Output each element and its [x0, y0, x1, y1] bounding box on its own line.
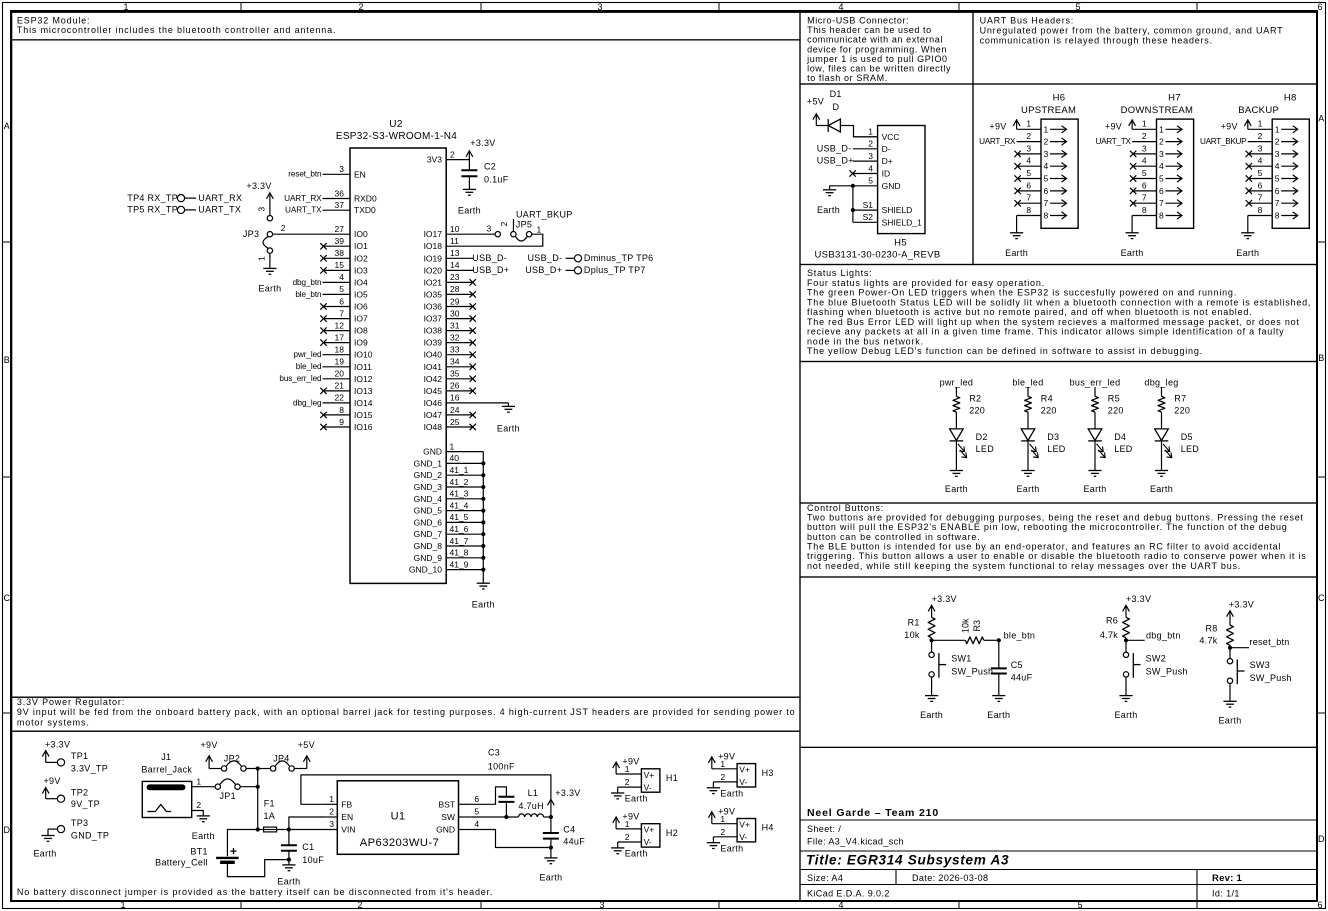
- pin 31 IO38: [424, 320, 474, 335]
- svg-text:J1: J1: [161, 752, 171, 762]
- svg-text:33: 33: [450, 345, 460, 355]
- resistor R1: [904, 617, 935, 640]
- no-connect pin 7 of H6: [1014, 200, 1020, 206]
- power +9V at H2: [613, 812, 640, 829]
- wire: [955, 412, 957, 429]
- arrow pin 4 of H6: [1050, 163, 1067, 170]
- pin 2 of H8: [1248, 131, 1280, 147]
- svg-text:H4: H4: [762, 823, 774, 833]
- svg-text:+9V: +9V: [201, 740, 218, 750]
- svg-text:GND_2: GND_2: [414, 470, 443, 480]
- power +3.3V at R6: [1123, 594, 1152, 617]
- svg-text:36: 36: [335, 188, 345, 198]
- pin 19 IO11: [323, 357, 373, 372]
- svg-text:reset_btn: reset_btn: [288, 170, 322, 179]
- svg-text:+9V: +9V: [1105, 122, 1122, 132]
- svg-text:19: 19: [335, 357, 345, 367]
- svg-text:node in the bus network.: node in the bus network.: [807, 336, 924, 346]
- pin 1 of H7: [1132, 119, 1164, 135]
- junction: [481, 461, 485, 465]
- svg-text:5: 5: [1275, 174, 1280, 184]
- pin 21 IO13: [323, 381, 373, 396]
- ground: [263, 268, 276, 274]
- svg-text:Four status lights are provide: Four status lights are provided for easy…: [807, 278, 1045, 288]
- svg-text:GND_7: GND_7: [414, 529, 443, 539]
- svg-text:GND_4: GND_4: [414, 494, 443, 504]
- pin 37 TXD0: [323, 200, 377, 215]
- svg-text:8: 8: [339, 405, 344, 415]
- svg-text:dbg_leg: dbg_leg: [1144, 377, 1178, 387]
- power +3.3V at R1: [928, 594, 957, 617]
- svg-text:SHIELD_1: SHIELD_1: [882, 217, 922, 227]
- svg-text:3: 3: [1258, 143, 1263, 153]
- pin 6 of H6: [1017, 180, 1049, 196]
- wire JP1 to bus: [240, 786, 258, 788]
- resistor R5: [1092, 394, 1124, 416]
- svg-text:14: 14: [450, 260, 460, 270]
- ground: [197, 816, 210, 822]
- pin 1 GND: [423, 441, 483, 456]
- svg-text:Earth: Earth: [1150, 484, 1173, 494]
- no-connect IO6: [320, 303, 326, 309]
- svg-text:220: 220: [969, 406, 985, 416]
- svg-text:IO21: IO21: [424, 277, 443, 287]
- svg-text:1: 1: [1044, 124, 1049, 134]
- pin 10 IO17: [424, 224, 474, 239]
- svg-text:Size: A4: Size: A4: [807, 873, 843, 883]
- wire: [1094, 441, 1096, 471]
- test point TP2: [46, 787, 100, 809]
- power +3.3V at R8: [1227, 600, 1254, 626]
- svg-text:AP63203WU-7: AP63203WU-7: [360, 837, 440, 849]
- pin 41_8 GND_9: [414, 548, 484, 563]
- wire BST to C3: [472, 787, 507, 804]
- battery BT1: [155, 846, 239, 867]
- pin 38 IO2: [323, 248, 368, 263]
- svg-text:The BLE button is intended for: The BLE button is intended for use by an…: [807, 542, 1281, 552]
- svg-text:dbg_leg: dbg_leg: [293, 398, 322, 407]
- svg-text:220: 220: [1174, 406, 1190, 416]
- svg-text:Barrel_Jack: Barrel_Jack: [141, 764, 192, 774]
- wire R6 to junction: [1125, 638, 1127, 641]
- svg-text:V-: V-: [739, 777, 747, 787]
- svg-text:1: 1: [329, 794, 334, 804]
- svg-text:2: 2: [1142, 131, 1147, 141]
- power +9V at H6: [989, 120, 1020, 132]
- svg-text:A: A: [4, 121, 10, 131]
- svg-text:41_3: 41_3: [450, 489, 469, 499]
- svg-text:4: 4: [339, 272, 344, 282]
- svg-text:KiCad E.D.A. 9.0.2: KiCad E.D.A. 9.0.2: [807, 889, 890, 899]
- capacitor C3: [488, 747, 515, 802]
- svg-text:1: 1: [196, 776, 201, 786]
- svg-text:5: 5: [1075, 2, 1080, 12]
- svg-text:+9V: +9V: [622, 757, 639, 767]
- svg-text:41_4: 41_4: [450, 500, 469, 510]
- connector H6 body: [1041, 119, 1078, 228]
- svg-text:Micro-USB Connector:: Micro-USB Connector:: [807, 16, 909, 26]
- no-connect IO16: [320, 424, 326, 430]
- svg-text:IO1: IO1: [354, 241, 368, 251]
- svg-text:+5V: +5V: [298, 740, 315, 750]
- svg-text:IO41: IO41: [424, 362, 443, 372]
- pin 5 IO5: [323, 284, 368, 299]
- svg-text:USB3131-30-0230-A_REVB: USB3131-30-0230-A_REVB: [815, 249, 941, 260]
- no-connect IO15: [320, 412, 326, 418]
- power +9V at H3: [708, 751, 735, 768]
- text 3.3V Power Regulator description: [17, 697, 796, 727]
- svg-text:6: 6: [1142, 180, 1147, 190]
- svg-text:V+: V+: [739, 820, 750, 830]
- svg-text:38: 38: [335, 248, 345, 258]
- ground: [463, 189, 476, 195]
- wire JP5 pin1 to IO18: [474, 234, 543, 246]
- svg-text:TP3: TP3: [71, 818, 88, 828]
- svg-text:1: 1: [537, 225, 542, 235]
- wire L1 to output node: [544, 816, 551, 818]
- pin 41_4 GND_5: [414, 500, 484, 515]
- svg-text:device for programming. When: device for programming. When: [807, 44, 947, 54]
- ground: [1241, 233, 1254, 239]
- junction: [549, 845, 553, 849]
- svg-text:Earth: Earth: [817, 205, 840, 215]
- svg-text:USB_D+: USB_D+: [817, 156, 854, 166]
- arrow pin 2 of H7: [1166, 138, 1183, 145]
- svg-text:10k: 10k: [961, 618, 971, 633]
- svg-text:D1: D1: [830, 89, 842, 99]
- svg-text:23: 23: [450, 272, 460, 282]
- svg-text:IO14: IO14: [354, 398, 373, 408]
- svg-text:ble_btn: ble_btn: [295, 290, 322, 299]
- svg-text:GND_5: GND_5: [414, 506, 443, 516]
- no-connect IO35: [470, 291, 476, 297]
- svg-text:not needed, while still keepin: not needed, while still keeping the syst…: [807, 561, 1241, 571]
- resistor R4: [1025, 394, 1057, 416]
- test point TP5: [127, 205, 241, 215]
- no-connect IO13: [320, 388, 326, 394]
- svg-text:17: 17: [335, 332, 345, 342]
- op-amp U2 body: [350, 148, 446, 583]
- svg-text:10k: 10k: [904, 630, 920, 640]
- svg-text:IO19: IO19: [424, 253, 443, 263]
- arrow pin 4 of H7: [1166, 163, 1183, 170]
- capacitor C1: [281, 830, 324, 865]
- svg-text:LED: LED: [1114, 444, 1133, 454]
- svg-text:6: 6: [339, 296, 344, 306]
- wire EN loop: [289, 817, 324, 830]
- svg-text:Earth: Earth: [625, 794, 648, 804]
- svg-text:LED: LED: [1047, 444, 1066, 454]
- svg-text:4: 4: [868, 163, 873, 173]
- svg-text:5: 5: [1026, 168, 1031, 178]
- frame column labels bottom: [120, 900, 1322, 910]
- svg-text:IO4: IO4: [354, 277, 368, 287]
- svg-text:D3: D3: [1047, 432, 1059, 442]
- junction: [481, 556, 485, 560]
- svg-text:8: 8: [1142, 205, 1147, 215]
- pin 3 of H6: [1017, 143, 1049, 159]
- svg-text:The yellow Debug LED's functio: The yellow Debug LED's function can be d…: [807, 346, 1203, 356]
- svg-text:7: 7: [1142, 193, 1147, 203]
- LED D4: [1088, 429, 1133, 458]
- pin 7 IO7: [323, 308, 368, 323]
- wire: [1161, 412, 1163, 429]
- net label dbg_leg: [1144, 377, 1178, 396]
- svg-text:6: 6: [1159, 186, 1164, 196]
- svg-text:22: 22: [335, 393, 345, 403]
- svg-text:flashing when bluetooth is act: flashing when bluetooth is active but no…: [807, 307, 1252, 317]
- wire +9V to JP2: [209, 768, 221, 770]
- svg-text:7: 7: [1275, 198, 1280, 208]
- pin 3 D+: [853, 151, 893, 166]
- svg-text:VIN: VIN: [341, 825, 355, 835]
- pin 2 EN: [324, 807, 353, 823]
- svg-text:28: 28: [450, 284, 460, 294]
- pin 4 of H6: [1017, 156, 1049, 172]
- svg-text:2: 2: [450, 149, 455, 159]
- svg-text:BST: BST: [438, 799, 455, 809]
- svg-text:8: 8: [1159, 211, 1164, 221]
- svg-text:IO17: IO17: [424, 229, 443, 239]
- svg-text:+3.3V: +3.3V: [1229, 600, 1254, 610]
- no-connect pin 3 of H6: [1014, 151, 1020, 157]
- frame row labels right: [1318, 114, 1325, 845]
- svg-text:3: 3: [868, 151, 873, 161]
- wire C5 to ground: [998, 674, 1000, 696]
- pin 2 V- of H4: [713, 827, 747, 842]
- arrow pin 7 of H6: [1050, 200, 1067, 207]
- svg-text:2: 2: [720, 827, 725, 837]
- wire SW2 to ground: [1125, 677, 1127, 696]
- svg-text:2: 2: [358, 2, 363, 12]
- jumper JP5: [474, 220, 542, 241]
- svg-text:GND_6: GND_6: [414, 517, 443, 527]
- svg-text:GND: GND: [882, 181, 901, 191]
- svg-text:1: 1: [257, 256, 267, 261]
- svg-text:communication is relayed throu: communication is relayed through these h…: [980, 35, 1213, 45]
- no-connect IO1: [320, 243, 326, 249]
- arrow pin 5 of H7: [1166, 175, 1183, 182]
- svg-text:2: 2: [625, 832, 630, 842]
- svg-text:D5: D5: [1181, 432, 1193, 442]
- wire: [1161, 441, 1163, 471]
- wire: [1027, 412, 1029, 429]
- svg-text:H8: H8: [1284, 93, 1297, 104]
- svg-text:communicate with an external: communicate with an external: [807, 35, 943, 45]
- no-connect pin 6 of H6: [1014, 188, 1020, 194]
- pin 6 IO6: [323, 296, 368, 311]
- pin 36 RXD0: [323, 188, 377, 203]
- svg-text:SW_Push: SW_Push: [1250, 673, 1292, 683]
- svg-text:100nF: 100nF: [488, 762, 515, 772]
- op-amp U1 regulator body: [337, 781, 458, 855]
- wire main bus vertical: [257, 769, 259, 830]
- svg-text:IO47: IO47: [424, 410, 443, 420]
- inductor L1: [518, 788, 544, 817]
- svg-text:GND_10: GND_10: [409, 565, 442, 575]
- svg-text:+9V: +9V: [718, 806, 735, 816]
- svg-text:R8: R8: [1205, 623, 1217, 633]
- svg-text:+9V: +9V: [622, 812, 639, 822]
- svg-text:SW_Push: SW_Push: [1146, 667, 1188, 677]
- svg-text:ble_btn: ble_btn: [1004, 631, 1036, 641]
- svg-text:GND_8: GND_8: [414, 541, 443, 551]
- svg-text:UART_TX: UART_TX: [285, 206, 322, 215]
- no-connect IO48: [470, 424, 476, 430]
- svg-text:11: 11: [450, 236, 459, 246]
- svg-text:C5: C5: [1011, 660, 1023, 670]
- svg-text:Two buttons are provided for d: Two buttons are provided for debugging p…: [807, 513, 1304, 523]
- wire: [1094, 412, 1096, 429]
- svg-text:0.1uF: 0.1uF: [484, 175, 509, 185]
- svg-text:Earth: Earth: [472, 600, 495, 610]
- svg-text:B: B: [1318, 353, 1324, 363]
- section box Control Buttons text: [800, 503, 1317, 577]
- pin 40 GND_1: [414, 453, 484, 468]
- svg-text:6: 6: [1317, 900, 1322, 910]
- svg-text:4: 4: [474, 819, 479, 829]
- svg-text:USB_D+: USB_D+: [525, 265, 562, 275]
- svg-text:UART_TX: UART_TX: [198, 205, 241, 215]
- ground: [41, 836, 54, 842]
- no-connect pin 7 of H7: [1130, 200, 1136, 206]
- pin 18 IO10: [323, 345, 373, 360]
- svg-text:Earth: Earth: [920, 710, 943, 720]
- wire bus to F1: [258, 829, 264, 831]
- svg-text:21: 21: [335, 381, 345, 391]
- svg-text:1A: 1A: [263, 811, 275, 821]
- pin 3 VIN: [329, 819, 355, 835]
- pin 8 of H7: [1132, 205, 1164, 221]
- LED D2: [950, 429, 995, 458]
- wire FB feedback loop: [301, 775, 551, 817]
- svg-text:D: D: [4, 825, 11, 835]
- wire R8 to junction: [1229, 645, 1231, 648]
- pin 8 of H6: [1017, 205, 1049, 221]
- pin S1 SHIELD: [853, 200, 912, 215]
- section box UART Bus Headers text: [973, 12, 1317, 84]
- junction: [504, 815, 508, 819]
- pin 30 IO37: [424, 308, 474, 323]
- svg-text:26: 26: [450, 381, 460, 391]
- pin 2 of H6: [1017, 131, 1049, 147]
- wire IO46 to ground: [474, 402, 509, 404]
- svg-text:IO9: IO9: [354, 338, 368, 348]
- pin 7 of H6: [1017, 193, 1049, 209]
- ground: [1223, 701, 1236, 707]
- power +9V at H8: [1221, 120, 1252, 132]
- svg-text:TP5: TP5: [127, 205, 144, 215]
- ground: [502, 406, 515, 412]
- pin 22 IO14: [323, 393, 373, 408]
- wire to ground: [550, 848, 552, 858]
- pin 1 FB: [324, 794, 352, 810]
- junction: [256, 827, 260, 831]
- wire pin2 of H2 to ground: [617, 842, 619, 848]
- svg-text:dbg_btn: dbg_btn: [1146, 631, 1181, 641]
- test point TP7: [525, 265, 645, 275]
- svg-text:H7: H7: [1168, 93, 1181, 104]
- wire pin 8 of H8 to ground: [1247, 216, 1249, 233]
- svg-text:41_6: 41_6: [450, 524, 469, 534]
- pin 34 IO41: [424, 357, 474, 372]
- ground: [1155, 471, 1168, 477]
- pin 7 of H8: [1248, 193, 1280, 209]
- pin 1 of J1: [192, 776, 215, 786]
- svg-text:41_8: 41_8: [450, 548, 469, 558]
- svg-text:25: 25: [450, 417, 460, 427]
- arrow pin 1 of H8: [1281, 126, 1298, 133]
- svg-text:Earth: Earth: [720, 843, 743, 853]
- svg-text:C1: C1: [302, 842, 314, 852]
- switch SW1 SW_Push: [929, 652, 993, 678]
- svg-text:6: 6: [1044, 186, 1049, 196]
- no-connect IO47: [470, 412, 476, 418]
- pin 4 ID: [853, 163, 890, 178]
- no-connect pin 4 of H7: [1130, 163, 1136, 169]
- svg-text:H3: H3: [762, 768, 774, 778]
- svg-text:IO6: IO6: [354, 302, 368, 312]
- connector H2 body: [641, 824, 660, 847]
- no-connect IO40: [470, 352, 476, 358]
- svg-text:R5: R5: [1108, 394, 1120, 404]
- arrow pin 3 of H8: [1281, 150, 1298, 157]
- svg-text:Status Lights:: Status Lights:: [807, 268, 872, 278]
- title block frame: [800, 747, 1317, 901]
- svg-text:V+: V+: [644, 770, 655, 780]
- svg-text:4: 4: [1159, 161, 1164, 171]
- svg-text:JP4: JP4: [273, 753, 289, 763]
- svg-text:34: 34: [450, 357, 460, 367]
- svg-text:The green Power-On LED trigger: The green Power-On LED triggers when the…: [807, 288, 1237, 298]
- pin 17 IO9: [323, 332, 368, 347]
- svg-text:3.3V_TP: 3.3V_TP: [71, 763, 108, 773]
- svg-text:IO11: IO11: [354, 362, 372, 372]
- pin 41_2 GND_3: [414, 477, 484, 492]
- no-connect IO3: [320, 267, 326, 273]
- svg-text:Earth: Earth: [1121, 248, 1144, 258]
- pin 1 of H6: [1017, 119, 1049, 135]
- test point TP6: [527, 253, 653, 263]
- svg-text:GND: GND: [436, 825, 455, 835]
- svg-text:UPSTREAM: UPSTREAM: [1021, 105, 1076, 116]
- ground: [1126, 233, 1139, 239]
- pin 16 IO46: [424, 393, 474, 408]
- svg-text:Dminus_TP TP6: Dminus_TP TP6: [584, 253, 654, 263]
- pin 39 IO1: [323, 236, 368, 251]
- wire SW to L1: [472, 816, 519, 818]
- test point TP4: [127, 193, 242, 203]
- svg-text:to flash or SRAM.: to flash or SRAM.: [807, 73, 888, 83]
- pin 35 IO42: [424, 369, 474, 384]
- svg-text:L1: L1: [528, 788, 539, 798]
- svg-text:6: 6: [1026, 180, 1031, 190]
- svg-text:16: 16: [450, 393, 460, 403]
- pin 41_3 GND_4: [414, 489, 484, 504]
- svg-text:39: 39: [335, 236, 345, 246]
- svg-text:IO42: IO42: [424, 374, 443, 384]
- svg-text:3: 3: [597, 2, 602, 12]
- svg-text:IO7: IO7: [354, 314, 368, 324]
- wire pin 8 of H7 to ground: [1131, 216, 1133, 233]
- pin 24 IO47: [424, 405, 474, 420]
- no-connect pin 5 of H8: [1246, 175, 1252, 181]
- wire pin2 of H3 to ground: [712, 782, 714, 788]
- svg-text:JP5: JP5: [516, 220, 532, 230]
- svg-text:2: 2: [1044, 137, 1049, 147]
- svg-text:V+: V+: [739, 765, 750, 775]
- section box H5 circuit: [800, 84, 973, 265]
